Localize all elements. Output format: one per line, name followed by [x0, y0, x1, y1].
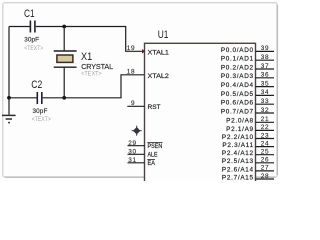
node junction left rail / C2 — [7, 96, 11, 100]
node junction at C1/X1 top — [62, 25, 66, 29]
pin P0.1 stub — [256, 59, 275, 61]
pin P2.0 stub — [256, 121, 275, 123]
svg-text:32: 32 — [261, 107, 270, 114]
wire C1 right to XTAL1 corner — [36, 27, 142, 52]
pin P2.4 stub — [256, 154, 275, 156]
svg-text:34: 34 — [261, 89, 270, 96]
svg-text:23: 23 — [261, 132, 270, 139]
pin P0.5 stub — [256, 94, 275, 96]
svg-text:36: 36 — [261, 72, 270, 79]
wire left rail — [8, 27, 10, 115]
svg-text:37: 37 — [261, 63, 270, 70]
pin P2.5 stub — [256, 162, 275, 164]
svg-text:39: 39 — [261, 45, 270, 52]
pin P0.6 stub — [256, 103, 275, 105]
svg-text:28: 28 — [261, 173, 270, 180]
svg-text:9: 9 — [131, 100, 135, 107]
wire crystal top — [63, 27, 65, 52]
svg-text:<TEXT>: <TEXT> — [81, 70, 102, 77]
svg-text:C2: C2 — [31, 79, 42, 91]
svg-text:P2.1/A9: P2.1/A9 — [226, 126, 254, 133]
svg-text:<TEXT>: <TEXT> — [24, 45, 43, 52]
pin P2.2 stub — [256, 138, 275, 140]
svg-text:XTAL2: XTAL2 — [148, 73, 170, 80]
crystal X1 — [54, 51, 77, 67]
svg-text:31: 31 — [128, 157, 137, 164]
svg-text:30: 30 — [128, 149, 137, 156]
svg-text:19: 19 — [127, 45, 136, 52]
svg-text:PSEN: PSEN — [148, 143, 163, 150]
port P2 pins — [256, 122, 275, 179]
svg-text:P2.2/A10: P2.2/A10 — [222, 134, 254, 141]
pin EA stub — [128, 162, 145, 164]
pin P2.7 stub — [256, 178, 275, 180]
pin P2.3 stub — [256, 146, 275, 148]
svg-text:21: 21 — [261, 116, 270, 123]
wire C1 left terminal — [9, 26, 30, 28]
svg-text:XTAL1: XTAL1 — [148, 50, 170, 57]
svg-text:P2.3/A11: P2.3/A11 — [222, 142, 253, 149]
svg-text:35: 35 — [261, 80, 270, 87]
svg-text:<TEXT>: <TEXT> — [32, 116, 51, 123]
capacitor C2 — [37, 92, 42, 104]
svg-text:26: 26 — [261, 157, 270, 164]
pin P0.2 stub — [256, 68, 275, 70]
svg-text:P2.6/A14: P2.6/A14 — [222, 166, 254, 173]
svg-text:P0.3/AD3: P0.3/AD3 — [221, 73, 254, 80]
wire C2 left terminal — [9, 97, 37, 99]
ground — [2, 115, 16, 122]
pin P0.7 stub — [256, 112, 275, 114]
svg-text:P2.7/A15: P2.7/A15 — [222, 174, 254, 181]
svg-text:25: 25 — [261, 149, 270, 156]
svg-text:30pF: 30pF — [24, 36, 39, 43]
svg-text:27: 27 — [261, 165, 270, 172]
pin RST stub — [127, 105, 144, 107]
svg-text:18: 18 — [127, 69, 136, 76]
svg-text:P0.2/AD2: P0.2/AD2 — [221, 64, 254, 71]
svg-text:EA: EA — [148, 160, 156, 167]
svg-text:24: 24 — [261, 140, 270, 147]
component origin marker — [132, 126, 142, 136]
svg-text:U1: U1 — [158, 29, 169, 41]
pin XTAL1 arrowhead — [142, 49, 145, 54]
pin P0.4 stub — [256, 86, 275, 88]
pin P2.1 stub — [256, 129, 275, 131]
port P2 pin names — [222, 118, 254, 182]
svg-text:ALE: ALE — [148, 152, 158, 159]
svg-text:P2.0/A8: P2.0/A8 — [226, 118, 254, 125]
svg-text:RST: RST — [148, 104, 161, 111]
svg-text:P0.4/AD4: P0.4/AD4 — [221, 82, 254, 89]
pin PSEN stub — [128, 145, 145, 147]
svg-text:30pF: 30pF — [33, 108, 48, 115]
svg-text:P0.5/AD5: P0.5/AD5 — [221, 91, 254, 98]
svg-text:C1: C1 — [24, 8, 35, 20]
node junction crystal bottom / C2 — [62, 96, 66, 100]
svg-text:P0.0/AD0: P0.0/AD0 — [221, 47, 254, 54]
svg-text:29: 29 — [128, 140, 137, 147]
port P0 pin numbers — [261, 45, 270, 114]
svg-text:P2.4/A12: P2.4/A12 — [222, 150, 254, 157]
pin P0.0 stub — [256, 50, 275, 52]
svg-text:P0.6/AD6: P0.6/AD6 — [221, 100, 254, 107]
svg-text:22: 22 — [261, 124, 270, 131]
svg-text:33: 33 — [261, 98, 270, 105]
svg-text:38: 38 — [261, 54, 270, 61]
port P0 pin names — [221, 47, 254, 116]
port P2 pin numbers — [261, 116, 270, 180]
sheet border — [3, 3, 277, 177]
wire C2 right to XTAL2 — [43, 75, 145, 98]
capacitor C1 — [30, 21, 35, 33]
wire crystal bottom — [63, 67, 65, 98]
pin P2.6 stub — [256, 170, 275, 172]
svg-text:P0.7/AD7: P0.7/AD7 — [221, 108, 254, 115]
port P0 pins — [256, 51, 275, 113]
pin P0.3 stub — [256, 77, 275, 79]
svg-text:P0.1/AD1: P0.1/AD1 — [221, 56, 254, 63]
pin ALE stub — [128, 153, 145, 155]
microcontroller U1 body — [145, 43, 256, 188]
svg-text:P2.5/A13: P2.5/A13 — [222, 158, 254, 165]
